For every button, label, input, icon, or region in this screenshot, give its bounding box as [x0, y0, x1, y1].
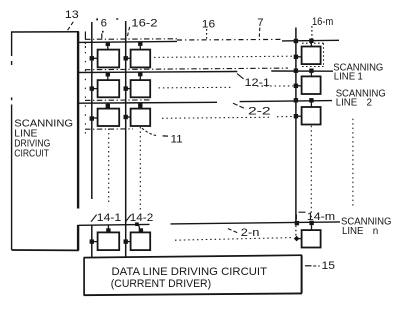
svg-text:2-2: 2-2	[248, 106, 271, 118]
svg-text:(CURRENT DRIVER): (CURRENT DRIVER)	[111, 278, 212, 290]
svg-text:LINE: LINE	[336, 97, 358, 108]
svg-text:LINE: LINE	[334, 71, 356, 82]
svg-text:16-m: 16-m	[312, 16, 333, 28]
svg-text:11: 11	[171, 134, 183, 146]
svg-text:6: 6	[101, 17, 107, 29]
svg-text:1: 1	[357, 71, 363, 82]
svg-text:14-2: 14-2	[130, 212, 154, 224]
svg-text:13: 13	[65, 9, 79, 21]
svg-text:7: 7	[257, 17, 263, 29]
svg-text:16-2: 16-2	[131, 17, 157, 29]
svg-text:CIRCUIT: CIRCUIT	[14, 149, 49, 160]
svg-text:2-n: 2-n	[241, 227, 260, 239]
svg-text:2: 2	[367, 97, 373, 108]
svg-text:n: n	[373, 226, 379, 237]
svg-text:16: 16	[202, 18, 215, 30]
svg-text:12-1: 12-1	[245, 77, 270, 89]
svg-text:15: 15	[322, 260, 336, 272]
svg-text:LINE: LINE	[342, 226, 364, 237]
svg-text:DATA LINE DRIVING CIRCUIT: DATA LINE DRIVING CIRCUIT	[112, 266, 268, 278]
svg-text:14-m: 14-m	[307, 211, 336, 223]
svg-text:14-1: 14-1	[97, 212, 122, 224]
